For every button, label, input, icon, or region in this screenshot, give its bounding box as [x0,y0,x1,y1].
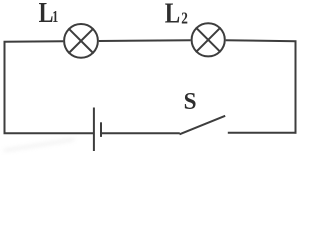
svg-text:1: 1 [52,8,58,27]
svg-text:2: 2 [181,9,188,28]
wire bottom-left segment [4,132,94,134]
battery short plate [100,122,102,137]
wire top-left segment [4,40,64,43]
battery long plate [93,108,95,152]
wire left vertical [4,42,6,134]
wire top-middle segment [99,39,191,42]
lamp L2 cross [196,27,221,52]
lamp L2 circle [192,23,225,56]
lamp L1 cross [68,28,93,53]
switch S blade [180,116,226,135]
lamp L1 circle [64,24,98,58]
svg-text:S: S [184,88,197,114]
wire bottom-right segment [228,132,297,134]
svg-text:L: L [165,0,180,29]
wire right vertical [295,41,297,133]
wire top-right segment [226,40,297,41]
wire bottom-middle segment [102,132,180,134]
scan smudge bottom-left [4,140,74,151]
svg-text:L: L [39,0,54,28]
